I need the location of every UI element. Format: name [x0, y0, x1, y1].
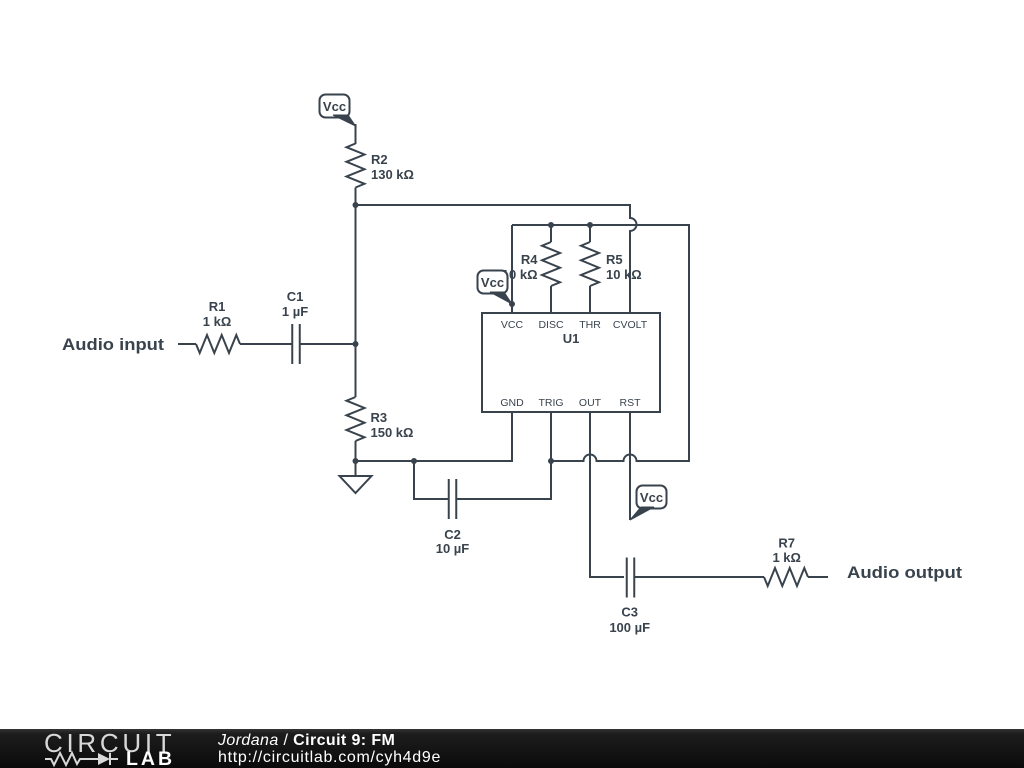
wire main vertical to C1 node: [355, 205, 357, 344]
wire R4 top lead: [550, 225, 552, 242]
svg-text:OUT: OUT: [579, 397, 602, 409]
resistor R2: [347, 144, 365, 188]
svg-text:R7: R7: [778, 536, 795, 551]
label R7 1 kΩ: [772, 536, 801, 566]
logo diode glyph: [98, 753, 118, 765]
wire R5 bottom lead to THR: [589, 286, 591, 313]
label R5 10 kΩ: [606, 252, 642, 282]
svg-text:THR: THR: [579, 319, 601, 331]
svg-text:http://circuitlab.com/cyh4d9e: http://circuitlab.com/cyh4d9e: [218, 749, 441, 766]
svg-text:CVOLT: CVOLT: [613, 319, 648, 331]
svg-text:100 µF: 100 µF: [609, 620, 650, 635]
resistor R7: [764, 568, 808, 586]
node junction C2 branch: [411, 458, 417, 464]
Vcc source bubble (feeds U1 VCC pin): [478, 271, 513, 305]
wire TRIG rail to right riser with hops over OUT and RST: [512, 225, 689, 461]
wire R3 to ground node: [355, 441, 357, 461]
Vcc source bubble (top, feeds R2): [320, 95, 356, 127]
resistor R4: [542, 242, 560, 286]
svg-text:1 kΩ: 1 kΩ: [772, 550, 801, 565]
node junction C1/main vertical: [353, 341, 359, 347]
svg-text:R4: R4: [521, 252, 538, 267]
wire C2 right branch to TRIG: [457, 461, 551, 499]
label C1 1 µF: [282, 289, 308, 319]
svg-text:R1: R1: [209, 299, 226, 314]
wire VCC pin: [511, 225, 513, 313]
svg-text:Jordana / Circuit 9: FM: Jordana / Circuit 9: FM: [217, 732, 395, 749]
wire RST pin down to Vcc bubble: [629, 412, 631, 520]
svg-text:130 kΩ: 130 kΩ: [371, 167, 414, 182]
logo resistor glyph: [45, 753, 98, 765]
wire TRIG pin: [550, 412, 552, 461]
wire R2 bottom to node: [355, 188, 357, 206]
svg-text:Vcc: Vcc: [481, 275, 504, 290]
wire OUT pin down to C3: [590, 412, 624, 577]
svg-text:TRIG: TRIG: [538, 397, 563, 409]
svg-text:LAB: LAB: [126, 748, 175, 768]
svg-text:150 kΩ: 150 kΩ: [371, 425, 414, 440]
footer bar: [0, 729, 1024, 768]
wire C3 to R7: [635, 576, 764, 578]
wire R1 to C1: [240, 343, 292, 345]
svg-text:C3: C3: [621, 605, 638, 620]
svg-text:Vcc: Vcc: [640, 490, 663, 505]
wire output lead: [808, 576, 828, 578]
node junction ground: [353, 458, 359, 464]
svg-text:C1: C1: [287, 289, 304, 304]
node junction R4 top: [548, 222, 554, 228]
label C2 10 µF: [436, 527, 470, 556]
svg-text:Vcc: Vcc: [323, 99, 346, 114]
label C3 100 µF: [609, 605, 650, 636]
wire node to R3: [355, 344, 357, 397]
label R3 150 kΩ: [371, 410, 414, 440]
wire ground rail to GND pin: [356, 412, 513, 461]
wire R5 top lead: [589, 225, 591, 242]
svg-text:GND: GND: [500, 397, 524, 409]
svg-text:C2: C2: [444, 527, 461, 542]
svg-text:DISC: DISC: [538, 319, 564, 331]
svg-text:VCC: VCC: [501, 319, 524, 331]
node junction Vcc bubble on VCC pin: [509, 301, 515, 307]
wire rail A to CVOLT with hop over rail B: [356, 205, 637, 313]
ground: [340, 461, 372, 493]
node junction R2/railA/main vertical: [353, 202, 359, 208]
svg-text:Audio output: Audio output: [847, 563, 962, 582]
resistor R3: [347, 397, 365, 441]
svg-text:RST: RST: [620, 397, 642, 409]
wire C2 left branch: [414, 461, 448, 499]
capacitor C1: [292, 324, 300, 364]
label R1 1 kΩ: [203, 299, 232, 329]
wire R4 bottom lead to DISC: [550, 286, 552, 313]
op-amp U1 box: [482, 313, 660, 412]
wire Vcc1 to R2: [355, 124, 357, 144]
node junction R5 top: [587, 222, 593, 228]
node junction TRIG: [548, 458, 554, 464]
Vcc source bubble (feeds RST): [630, 486, 667, 521]
svg-text:1 kΩ: 1 kΩ: [203, 314, 232, 329]
resistor R1: [196, 335, 240, 353]
label R2 130 kΩ: [371, 152, 414, 182]
svg-text:U1: U1: [563, 331, 580, 346]
wire C1 to node: [301, 343, 356, 345]
svg-text:R5: R5: [606, 252, 623, 267]
label R4 10 kΩ: [502, 252, 538, 282]
svg-text:10 kΩ: 10 kΩ: [606, 267, 642, 282]
svg-text:1 µF: 1 µF: [282, 304, 308, 319]
svg-text:10 µF: 10 µF: [436, 541, 470, 556]
wire input lead: [178, 343, 196, 345]
svg-text:Audio input: Audio input: [62, 335, 164, 354]
capacitor C2: [449, 479, 457, 519]
capacitor C3: [627, 558, 635, 598]
svg-text:R2: R2: [371, 152, 388, 167]
resistor R5: [581, 242, 599, 286]
svg-text:R3: R3: [371, 410, 388, 425]
